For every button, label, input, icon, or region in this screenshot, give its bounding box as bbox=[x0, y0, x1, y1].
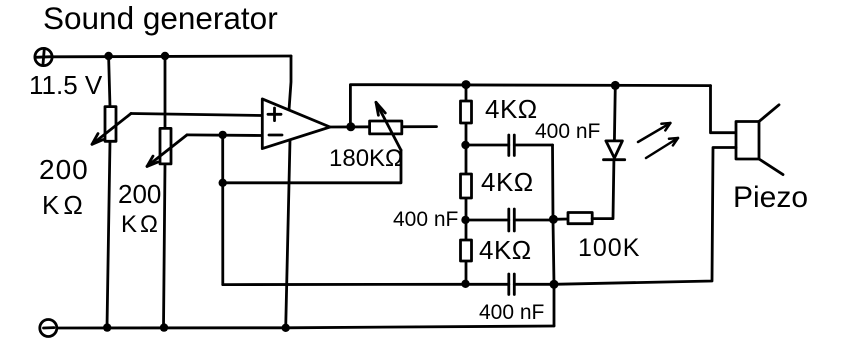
label 200 KΩ P2 bbox=[118, 179, 161, 238]
svg-text:200: 200 bbox=[39, 154, 89, 185]
wire ladder left rail bbox=[465, 85, 468, 285]
svg-text:180KΩ: 180KΩ bbox=[329, 145, 403, 172]
wire top rail to P1 bbox=[109, 56, 110, 107]
wire P1 bottom to bottom rail bbox=[107, 141, 110, 328]
wire top supply rail bbox=[52, 55, 291, 59]
capacitor C1 400nF bbox=[509, 135, 515, 156]
svg-text:11.5 V: 11.5 V bbox=[29, 70, 103, 100]
junction LED branch top bbox=[611, 81, 620, 90]
wire P2 wiper to op-amp minus input bbox=[187, 133, 262, 136]
svg-text:KΩ: KΩ bbox=[121, 211, 161, 238]
junction top rail P2 bbox=[161, 52, 169, 60]
svg-text:KΩ: KΩ bbox=[42, 190, 87, 220]
svg-text:Sound generator: Sound generator bbox=[43, 0, 278, 36]
wire P1 wiper to op-amp plus input bbox=[131, 114, 262, 116]
junction op-amp output node bbox=[346, 122, 355, 131]
LED D1 bbox=[604, 141, 625, 160]
wire minus node to ladder bottom bbox=[223, 283, 466, 286]
svg-text:400 nF: 400 nF bbox=[479, 301, 544, 324]
LED light emission arrows bbox=[638, 123, 678, 158]
junction top rail P1 bbox=[104, 52, 112, 60]
wire V+ supply to op-amp bbox=[289, 56, 291, 110]
svg-text:100K: 100K bbox=[578, 234, 640, 262]
junction row B bbox=[461, 141, 469, 149]
svg-text:Piezo: Piezo bbox=[733, 181, 808, 214]
potentiometer P2 200K bbox=[147, 128, 187, 166]
wire feedback to P3 wiper bbox=[223, 150, 401, 183]
resistor R2 4K bbox=[461, 174, 472, 198]
label 200 KΩ P1 bbox=[39, 154, 89, 220]
svg-text:400 nF: 400 nF bbox=[393, 208, 458, 231]
resistor R3 4K bbox=[461, 240, 472, 261]
junction op-amp minus input node bbox=[219, 131, 227, 139]
svg-text:4KΩ: 4KΩ bbox=[485, 94, 538, 124]
positive supply terminal bbox=[35, 48, 52, 65]
wire row C left bbox=[466, 219, 509, 222]
junction row C bbox=[461, 216, 469, 224]
wire row D right bbox=[514, 283, 554, 286]
wire row B right bbox=[514, 144, 552, 147]
wire bottom rail bbox=[57, 326, 554, 328]
wire output riser to ladder top rail bbox=[350, 85, 710, 127]
capacitor C2 400nF bbox=[509, 209, 515, 231]
potentiometer P1 200K bbox=[92, 107, 131, 145]
wire row C right bbox=[514, 219, 553, 222]
negative supply terminal bbox=[40, 320, 57, 337]
potentiometer P3 180K bbox=[370, 102, 402, 150]
svg-text:200: 200 bbox=[118, 179, 161, 209]
junction bottom rail P2 bbox=[160, 323, 168, 331]
resistor R1 4K bbox=[461, 101, 472, 123]
wire right rail to R4 bbox=[553, 218, 568, 221]
capacitor C3 400nF bbox=[509, 274, 515, 295]
wire piezo minus return bbox=[554, 148, 736, 285]
svg-text:400 nF: 400 nF bbox=[535, 120, 600, 143]
piezo transducer bbox=[736, 105, 783, 175]
junction right rail row D bbox=[550, 280, 559, 289]
wire row D left bbox=[466, 283, 509, 286]
svg-text:4KΩ: 4KΩ bbox=[479, 235, 532, 265]
junction right rail row C bbox=[549, 215, 558, 224]
wire top rail to LED anode bbox=[613, 85, 617, 141]
op-amp U1 bbox=[262, 99, 330, 149]
wire top rail corner to piezo plus bbox=[711, 86, 737, 133]
resistor R4 100K bbox=[568, 213, 592, 224]
wire right ladder rail bbox=[553, 145, 555, 326]
junction ladder top bbox=[462, 80, 471, 89]
wire R4 to LED cathode bbox=[592, 160, 614, 219]
wire minus input node down bbox=[221, 135, 224, 285]
junction row D bbox=[461, 280, 469, 288]
wire top rail to P2 bbox=[164, 56, 167, 129]
wire row B left bbox=[466, 144, 509, 147]
wire P2 bottom to bottom rail bbox=[164, 164, 166, 328]
junction bottom rail P1 bbox=[103, 323, 111, 331]
wire op-amp output bbox=[330, 125, 437, 128]
svg-text:4KΩ: 4KΩ bbox=[481, 167, 534, 197]
wire V- supply op-amp to bottom rail bbox=[286, 140, 290, 328]
junction feedback node bbox=[219, 179, 227, 187]
junction bottom rail op-amp V- bbox=[282, 324, 290, 332]
